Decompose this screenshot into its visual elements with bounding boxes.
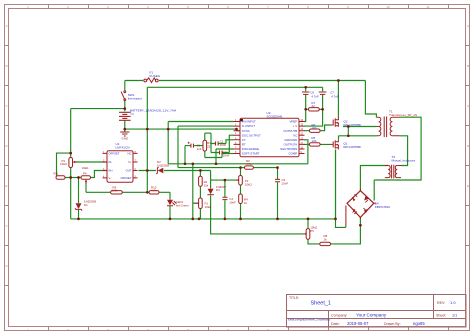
potentiometer P2 (236, 176, 242, 186)
svg-text:FUSEG: FUSEG (150, 74, 161, 78)
svg-text:1/1: 1/1 (452, 313, 457, 317)
svg-text:VC: VC (293, 133, 297, 137)
junction (78.5,177.5) (77, 176, 80, 179)
junction (236.5,129.1) (235, 128, 238, 131)
LED LED1 (167, 200, 176, 206)
potentiometer P1 (195, 198, 203, 209)
resistor R6 (309, 129, 320, 132)
svg-text:lceda.cn/ego85/e/sheet_1-schem: lceda.cn/ego85/e/sheet_1-schematic (288, 318, 331, 322)
wire OUTPUTB to Q2 gate (304, 125, 331, 131)
wire LED drop (169, 192, 171, 219)
wire R1 top link (205, 132, 211, 134)
wire R0 line (178, 167, 278, 169)
svg-text:10nF: 10nF (220, 143, 227, 147)
svg-text:SG3525AN: SG3525AN (267, 115, 283, 119)
junction (192.8,218.9) (191, 218, 194, 221)
junction (277.5,218.9) (276, 218, 279, 221)
svg-text:OUT: OUT (126, 169, 132, 173)
svg-text:OUTPUTA: OUTPUTA (284, 143, 298, 147)
svg-text:P5: P5 (310, 229, 314, 233)
wire left +12 branch (71, 108, 125, 110)
svg-text:1N5230B: 1N5230B (157, 163, 169, 167)
svg-text:10kΩ: 10kΩ (60, 162, 68, 166)
wire pin8 SOFT-START (222, 153, 234, 155)
junction (147.3,192.3) (146, 191, 149, 194)
svg-text:22: 22 (207, 144, 211, 148)
wire D3 drop (210, 180, 212, 219)
svg-text:DISCHARGE: DISCHARGE (242, 147, 259, 151)
resistor R10 (149, 191, 159, 194)
resistor R4 (239, 194, 243, 204)
svg-text:4.7uF: 4.7uF (331, 94, 339, 98)
svg-text:REV:: REV: (437, 301, 445, 305)
svg-text:B: B (5, 64, 7, 68)
svg-text:100: 100 (312, 126, 317, 130)
pin labels U2 (242, 120, 298, 156)
resistor R5 (309, 143, 320, 146)
junction (147.3,170.5) (146, 169, 149, 172)
svg-text:Interruptor: Interruptor (128, 97, 142, 101)
wire R9 R10 line (86, 191, 170, 193)
fuse F1 (144, 78, 158, 83)
svg-text:22: 22 (312, 104, 316, 108)
transformer T3 (385, 165, 401, 179)
junction (240.5,167.6) (239, 166, 242, 169)
junction (124.8,129.1) (123, 128, 126, 131)
resistor R7 (309, 108, 320, 111)
wire C4 drop (224, 180, 226, 219)
switch SW1 (121, 91, 126, 101)
capacitor C0 (302, 92, 310, 94)
wire R2-P1 chain (199, 171, 201, 219)
svg-text:10k: 10k (204, 183, 209, 187)
wire T3 left to bridge top (360, 166, 388, 191)
junction (70.7,177.5) (69, 176, 72, 179)
wire OUT corner down (210, 171, 212, 181)
svg-text:2019-05-07: 2019-05-07 (347, 321, 369, 326)
junction (200.4,170.5) (199, 169, 202, 172)
wire R1 bottom link (205, 154, 222, 158)
svg-text:GROUND: GROUND (284, 138, 297, 142)
wire U1 OUT line (138, 170, 210, 172)
junction (305.7,87.3) (304, 86, 307, 89)
svg-text:SYNC: SYNC (242, 129, 250, 133)
svg-text:4.7uF: 4.7uF (311, 94, 319, 98)
wire D1 branch (78, 178, 80, 219)
svg-text:P4: P4 (83, 171, 87, 175)
svg-text:led Green: led Green (176, 204, 189, 208)
svg-text:10kΩ: 10kΩ (82, 166, 90, 170)
potentiometer P3 (69, 158, 77, 168)
wire P5-R8 to bridge bottom (308, 217, 360, 244)
wire D3/C4/P2 header (211, 179, 239, 181)
bridge D4 (346, 189, 376, 226)
potentiometer P5 (303, 229, 310, 240)
pin numbers U2 (235, 120, 304, 154)
svg-text:1.0: 1.0 (450, 300, 456, 305)
junction (348.3,135.8) (347, 134, 350, 137)
wire left mesh vertical B (177, 126, 179, 168)
svg-text:INV.INPUT: INV.INPUT (242, 120, 256, 124)
op-amp U1 (103, 151, 138, 182)
resistor R9 (111, 191, 123, 194)
wire gnd symbol drop (124, 129, 126, 132)
junction (216,163.8) (215, 162, 218, 165)
svg-text:Sheet:: Sheet: (436, 313, 446, 317)
zener D1 (75, 203, 81, 210)
wire Q1 drain to T1 bottom (339, 136, 377, 140)
svg-text:CT: CT (242, 138, 246, 142)
svg-text:10: 10 (386, 5, 390, 9)
svg-text:Y1: Y1 (130, 112, 134, 116)
zener D2 (156, 167, 163, 174)
svg-text:+ V: + V (293, 124, 297, 128)
svg-text:OFFSET: OFFSET (120, 176, 131, 180)
junction (224.9,218.9) (224, 218, 227, 221)
wire Q2-Q1 link (347, 127, 349, 136)
svg-text:E: E (467, 184, 469, 188)
IC U2 (234, 118, 305, 157)
svg-text:Your Company: Your Company (356, 313, 387, 318)
transformer T1 (376, 117, 399, 138)
svg-text:R11: R11 (54, 172, 59, 176)
resistor R8 (320, 242, 331, 245)
svg-text:SHUTDOWN: SHUTDOWN (280, 147, 297, 151)
svg-text:LM741CN: LM741CN (116, 146, 130, 150)
wire GROUND loop (304, 140, 308, 164)
wire P4 right to IN+ (91, 171, 108, 178)
wire rail to T1 primary top (365, 81, 376, 118)
capacitor C2 (216, 142, 219, 146)
svg-text:100: 100 (312, 139, 317, 143)
wire R7 link (306, 108, 323, 110)
svg-text:COMP: COMP (289, 152, 298, 156)
wire P2-R4 chain (240, 168, 242, 219)
wire battery/switch vertical (124, 81, 126, 130)
svg-text:Drawn By:: Drawn By: (384, 322, 401, 326)
svg-text:F: F (6, 224, 8, 228)
svg-text:IN-: IN- (109, 160, 113, 164)
svg-text:10nF: 10nF (223, 154, 230, 158)
junction (240.5,218.9) (239, 218, 242, 221)
pin labels U1 (109, 152, 132, 180)
junction (338.4,80.5) (337, 79, 340, 82)
svg-text:4.7k: 4.7k (246, 162, 252, 166)
junction (124.8,108.6) (123, 107, 126, 110)
capacitor C3 (220, 151, 223, 155)
mosfet Q1 (331, 140, 338, 150)
wire P3 feedback loop (57, 153, 71, 177)
wire pin1 INV (168, 121, 233, 123)
mosfet Q2 (331, 117, 338, 127)
svg-text:IRF1407PBF: IRF1407PBF (343, 123, 361, 127)
wire P3 vertical (70, 109, 72, 219)
wire bridge right drop (373, 180, 375, 201)
junction (168.2,129.1) (167, 128, 170, 131)
svg-text:RT: RT (242, 143, 246, 147)
resistor R11 (56, 176, 65, 179)
svg-text:Transformer_SP_1S: Transformer_SP_1S (389, 113, 417, 117)
wire +V drop (304, 87, 323, 126)
wire bridge left stub (345, 225, 347, 227)
svg-text:BATTERY_LEADACID_12V_7AH: BATTERY_LEADACID_12V_7AH (130, 109, 176, 113)
svg-text:Date:: Date: (331, 322, 340, 326)
svg-text:V-: V- (109, 176, 112, 180)
svg-text:SOFT-START: SOFT-START (242, 152, 260, 156)
potentiometer P4 (81, 176, 91, 184)
svg-text:4.7k: 4.7k (151, 188, 157, 192)
wire C1 line (185, 146, 205, 164)
svg-text:OFFSET: OFFSET (109, 152, 120, 156)
svg-text:TITLE:: TITLE: (289, 296, 299, 300)
svg-text:IRF1407PBF: IRF1407PBF (343, 145, 361, 149)
wire aux vertical (146, 87, 148, 192)
wire OUTPUTA to Q1 gate (304, 143, 331, 145)
svg-text:GND: GND (121, 136, 129, 140)
svg-text:11: 11 (426, 5, 429, 9)
wire Q1 source down (335, 150, 337, 219)
battery Y1 (119, 112, 131, 120)
svg-text:A: A (5, 24, 7, 28)
wire T1 sec top loop (374, 117, 421, 180)
svg-text:E: E (5, 184, 7, 188)
svg-text:10nF: 10nF (229, 200, 236, 204)
svg-text:D3: D3 (216, 188, 220, 192)
wire R1 vertical (204, 133, 206, 157)
svg-text:1uF: 1uF (197, 147, 202, 151)
wire VREF drop (304, 87, 306, 121)
junction (308,218.9) (307, 218, 310, 221)
junction (335.5,218.9) (334, 218, 337, 221)
junction (70.7,153.1) (69, 152, 72, 155)
junction (322.6,109.3) (321, 108, 324, 111)
svg-text:Mutual_Inductors: Mutual_Inductors (392, 159, 416, 163)
resistor R0 (245, 166, 254, 169)
IC pin1 marker (240, 119, 243, 121)
svg-text:B: B (467, 64, 469, 68)
wire T1 sec bottom to T3 (400, 136, 408, 166)
junction (224.9,180.1) (224, 179, 227, 182)
title block (287, 295, 467, 328)
wire R11-P4 link (65, 177, 81, 179)
svg-text:NC: NC (127, 152, 131, 156)
wire net (57, 81, 422, 244)
svg-text:10kΩ: 10kΩ (245, 182, 253, 186)
svg-text:Company:: Company: (331, 313, 347, 317)
capacitor C4 (222, 197, 227, 199)
wire C2 loop (211, 133, 234, 152)
svg-text:IN+: IN+ (109, 169, 114, 173)
resistor R1 (203, 140, 207, 151)
wire left mesh vertical A (167, 122, 169, 164)
svg-text:V+: V+ (128, 160, 132, 164)
svg-text:KBPC3510: KBPC3510 (375, 205, 391, 209)
svg-text:VREF: VREF (289, 120, 297, 124)
svg-text:10kΩ: 10kΩ (205, 205, 213, 209)
svg-text:ego85: ego85 (413, 321, 425, 326)
junction (147.3,129.1) (146, 128, 149, 131)
wire aux line (147, 86, 322, 88)
svg-text:D1: D1 (84, 203, 88, 207)
wire pin2 NI (178, 125, 234, 127)
junction (170,218.9) (169, 218, 172, 221)
wire gnd rail to mesh (125, 129, 240, 131)
junction (348.3,126.5) (347, 125, 350, 128)
junction (192.8,163.8) (191, 162, 194, 165)
wire pin7 DISCHARGE (216, 149, 234, 164)
wire Q2 drain drop (337, 81, 339, 118)
wire under-IC ground line (168, 163, 308, 165)
junction (185,163.8) (184, 162, 187, 165)
diode D3 (207, 189, 213, 195)
wire C3 loop (211, 135, 234, 152)
capacitor C7 (319, 92, 327, 94)
pin numbers U1 (103, 152, 137, 179)
wire P3 wiper to IN- (75, 161, 108, 163)
resistor R2 (199, 176, 203, 186)
svg-text:OSC.OUTPUT: OSC.OUTPUT (242, 133, 261, 137)
wire P1 wiper (193, 164, 198, 219)
capacitor C6 (275, 179, 280, 181)
ground (120, 132, 129, 136)
wire P5 tap drop (211, 219, 304, 234)
junction (199,218.9) (198, 218, 201, 221)
svg-text:N.I.INPUT: N.I.INPUT (242, 124, 255, 128)
capacitor C1 (188, 142, 194, 148)
wire C6 drop (277, 168, 279, 219)
svg-text:10nF: 10nF (282, 181, 289, 185)
junction (305.7,109.3) (304, 108, 307, 111)
junction (78.5,218.9) (77, 218, 80, 221)
wire rail to bridge left (336, 150, 346, 228)
svg-text:OUTPUTB: OUTPUTB (283, 129, 297, 133)
wire +12V top rail (125, 80, 366, 82)
wire Q2 source to T1 center (343, 126, 376, 128)
junction (360.4,225.2) (359, 224, 362, 227)
wire P4 wiper down (85, 181, 87, 193)
svg-text:Sheet_1: Sheet_1 (311, 301, 332, 307)
junction (277.5,167.6) (276, 166, 279, 169)
wire bottom rail (71, 218, 336, 220)
wire P5 top (307, 219, 309, 229)
svg-text:A: A (467, 24, 469, 28)
svg-text:100k: 100k (112, 188, 119, 192)
